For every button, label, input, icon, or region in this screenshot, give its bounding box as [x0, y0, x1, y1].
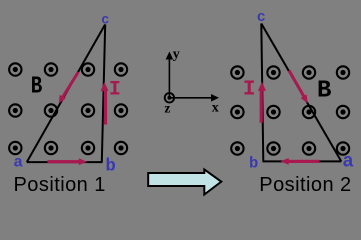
svg-text:B: B: [317, 78, 331, 105]
z axis circle (out of page): [165, 93, 174, 102]
svg-text:y: y: [173, 47, 180, 62]
svg-text:x: x: [212, 101, 219, 116]
right triangle (position 2): [261, 24, 341, 162]
svg-text:b: b: [105, 157, 116, 177]
svg-text:c: c: [101, 13, 109, 28]
current arrow up b->c (right fig): [258, 82, 266, 123]
wire bottom a-b: [27, 161, 103, 163]
wire bottom b-a: [263, 160, 342, 162]
svg-text:Position 2: Position 2: [259, 174, 351, 196]
svg-text:z: z: [164, 100, 170, 115]
svg-text:b: b: [249, 154, 258, 172]
big transition arrow: [148, 170, 221, 195]
svg-text:Position 1: Position 1: [14, 174, 106, 196]
right field dots grid: [231, 66, 349, 154]
wire hypotenuse c-a: [27, 25, 105, 163]
current arrow hypotenuse c->a (pointing down-right): [289, 71, 308, 104]
coordinate axes: [164, 47, 219, 116]
current arrow bottom a->b (pointing left): [280, 158, 319, 165]
wire right side c-b: [102, 25, 105, 163]
left triangle (position 1): [27, 25, 105, 163]
svg-text:B: B: [31, 74, 43, 101]
svg-text:a: a: [342, 151, 353, 173]
y axis: [168, 57, 170, 98]
current arrow hypotenuse c->a: [59, 72, 79, 104]
svg-text:I: I: [109, 78, 121, 101]
left field dots grid: [9, 63, 127, 154]
svg-text:c: c: [257, 9, 266, 26]
wire hypotenuse c-a: [261, 24, 341, 162]
svg-text:a: a: [13, 154, 23, 172]
x axis: [169, 97, 213, 99]
wire left side c-b: [261, 24, 263, 162]
current arrow bottom a->b: [47, 158, 87, 165]
current arrow up b->c: [101, 82, 109, 125]
svg-text:I: I: [243, 78, 256, 101]
